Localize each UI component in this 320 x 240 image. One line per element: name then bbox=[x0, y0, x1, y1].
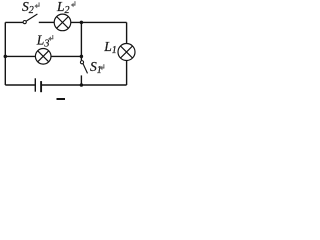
bottom junction dot bbox=[80, 83, 84, 87]
wire L2 to top-right corner bbox=[71, 21, 127, 23]
return-mark after L3 bbox=[48, 35, 53, 41]
wire bottom left to battery bbox=[5, 84, 35, 86]
node A junction dot bbox=[80, 21, 84, 25]
svg-text:L2: L2 bbox=[56, 0, 70, 16]
svg-text:S2: S2 bbox=[22, 0, 34, 16]
return-mark after S2 bbox=[34, 2, 39, 8]
lamp L3 bbox=[35, 49, 51, 65]
wire top segment to S2 bbox=[5, 21, 23, 23]
switch S2 bbox=[23, 14, 37, 24]
cropped character bar bottom bbox=[57, 98, 66, 100]
lamp L2 bbox=[54, 14, 71, 31]
lamp L1 bbox=[118, 44, 135, 61]
node on left edge junction dot bbox=[4, 55, 8, 59]
wire S2 to L2 bbox=[39, 21, 54, 23]
wire left edge to L3 bbox=[5, 55, 35, 57]
node B junction dot bbox=[80, 55, 84, 59]
svg-text:L3: L3 bbox=[36, 33, 50, 50]
wire right edge upper bbox=[126, 22, 128, 43]
return-mark after L2 bbox=[71, 1, 76, 7]
wire left edge bbox=[4, 22, 6, 85]
svg-text:L1: L1 bbox=[103, 39, 117, 56]
battery short plate bbox=[40, 81, 42, 92]
wire L3 to node B bbox=[51, 55, 81, 57]
wire middle vertical from node A bbox=[80, 22, 82, 56]
battery long plate bbox=[34, 78, 36, 91]
wire right edge lower bbox=[126, 60, 128, 85]
return-mark after S1 bbox=[100, 64, 105, 70]
switch S1 bbox=[80, 56, 87, 85]
wire battery to bottom-right corner bbox=[42, 84, 127, 86]
